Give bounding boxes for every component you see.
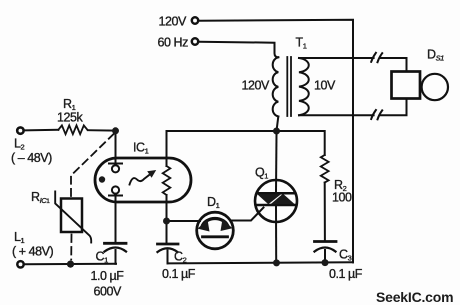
- svg-text:125k: 125k: [57, 111, 84, 125]
- svg-text:SeekIC.com: SeekIC.com: [376, 289, 453, 305]
- svg-text:0.1 µF: 0.1 µF: [329, 267, 363, 281]
- svg-text:0.1 µF: 0.1 µF: [162, 267, 196, 281]
- svg-text:( – 48V): ( – 48V): [11, 151, 52, 165]
- svg-text:1.0 µF: 1.0 µF: [91, 269, 125, 283]
- svg-text:120V: 120V: [159, 14, 188, 28]
- svg-text:10V: 10V: [314, 79, 336, 93]
- svg-text:60 Hz: 60 Hz: [158, 36, 189, 50]
- svg-text:100: 100: [332, 191, 352, 205]
- svg-text:600V: 600V: [94, 285, 123, 299]
- svg-text:( + 48V): ( + 48V): [12, 245, 53, 259]
- svg-text:120V: 120V: [242, 79, 271, 93]
